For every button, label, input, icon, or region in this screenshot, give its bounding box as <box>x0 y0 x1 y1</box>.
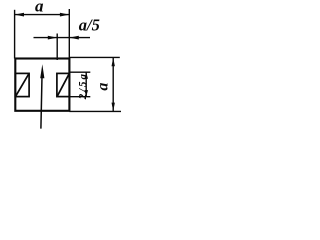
svg-text:a/5: a/5 <box>79 15 100 34</box>
right inner rectangle with diagonal <box>57 73 70 96</box>
up arrow inside body <box>40 64 44 128</box>
dimension 2/5a (vertical, middle) <box>69 72 90 97</box>
left inner rectangle with diagonal <box>15 73 29 96</box>
svg-text:a: a <box>35 0 44 15</box>
svg-text:2/5a: 2/5a <box>77 72 89 100</box>
main square body <box>15 59 69 111</box>
dimension a/5 (top right) <box>34 34 91 61</box>
dimension a (right, vertical) <box>69 57 121 111</box>
dimension a (top) <box>15 9 70 59</box>
background <box>0 0 133 133</box>
svg-text:a: a <box>94 83 111 91</box>
